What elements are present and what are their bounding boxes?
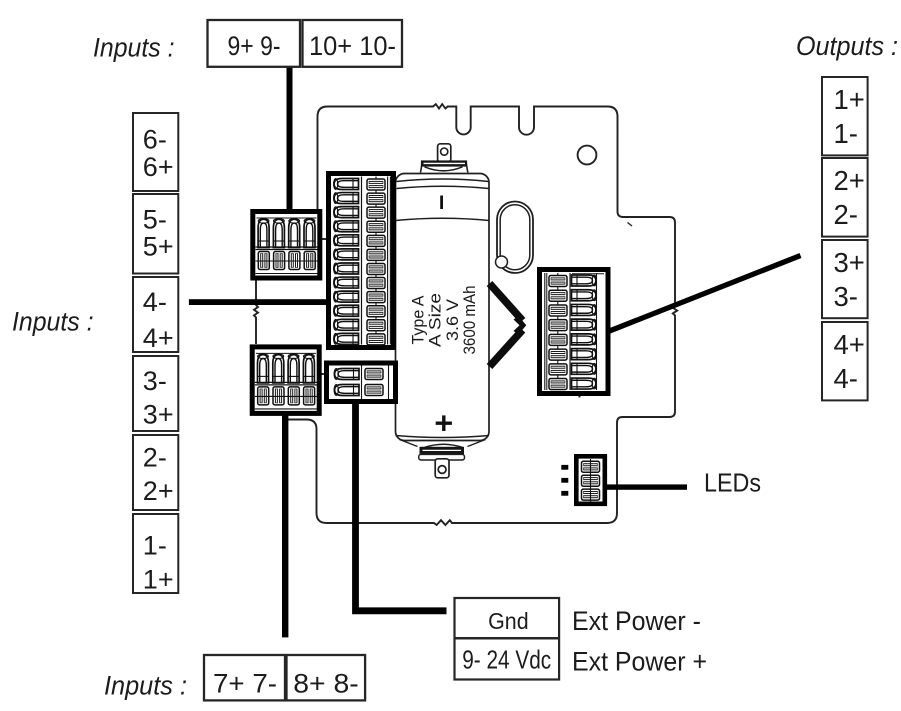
svg-text:Inputs :: Inputs : — [12, 307, 94, 337]
svg-text:6-: 6- — [143, 125, 167, 155]
svg-text:4+: 4+ — [834, 329, 865, 360]
svg-text:7+ 7-: 7+ 7- — [213, 669, 277, 699]
svg-text:A Size: A Size — [426, 293, 445, 347]
svg-text:8+ 8-: 8+ 8- — [293, 669, 359, 699]
svg-text:2+: 2+ — [834, 165, 865, 196]
svg-text:5-: 5- — [143, 205, 167, 235]
svg-text:1-: 1- — [143, 531, 167, 561]
svg-text:6+: 6+ — [143, 152, 174, 182]
svg-text:1-: 1- — [834, 118, 858, 149]
svg-text:2-: 2- — [143, 443, 167, 473]
svg-text:5+: 5+ — [143, 232, 174, 262]
svg-text:4-: 4- — [834, 363, 858, 394]
svg-text:2+: 2+ — [143, 476, 174, 506]
svg-text:Inputs :: Inputs : — [93, 33, 175, 63]
svg-text:3-: 3- — [834, 281, 858, 312]
svg-text:Gnd: Gnd — [488, 608, 529, 634]
svg-text:Type A: Type A — [409, 295, 428, 345]
svg-text:3.6 V: 3.6 V — [443, 298, 462, 341]
svg-text:4+: 4+ — [143, 323, 174, 353]
svg-text:2-: 2- — [834, 199, 858, 230]
svg-text:1+: 1+ — [143, 565, 174, 595]
svg-text:10+ 10-: 10+ 10- — [309, 31, 396, 61]
svg-text:Ext Power -: Ext Power - — [572, 606, 701, 636]
svg-text:Inputs :: Inputs : — [104, 671, 187, 701]
svg-text:1+: 1+ — [834, 84, 865, 115]
svg-text:3+: 3+ — [834, 247, 865, 278]
svg-text:Ext Power +: Ext Power + — [572, 647, 707, 677]
svg-text:LEDs: LEDs — [704, 468, 761, 498]
svg-text:3600 mAh: 3600 mAh — [460, 286, 479, 355]
svg-text:4-: 4- — [143, 287, 167, 317]
svg-text:9+ 9-: 9+ 9- — [228, 31, 281, 61]
svg-text:9- 24 Vdc: 9- 24 Vdc — [462, 645, 551, 675]
svg-text:Outputs :: Outputs : — [796, 31, 898, 61]
svg-text:3-: 3- — [143, 366, 167, 396]
svg-text:3+: 3+ — [143, 400, 174, 430]
